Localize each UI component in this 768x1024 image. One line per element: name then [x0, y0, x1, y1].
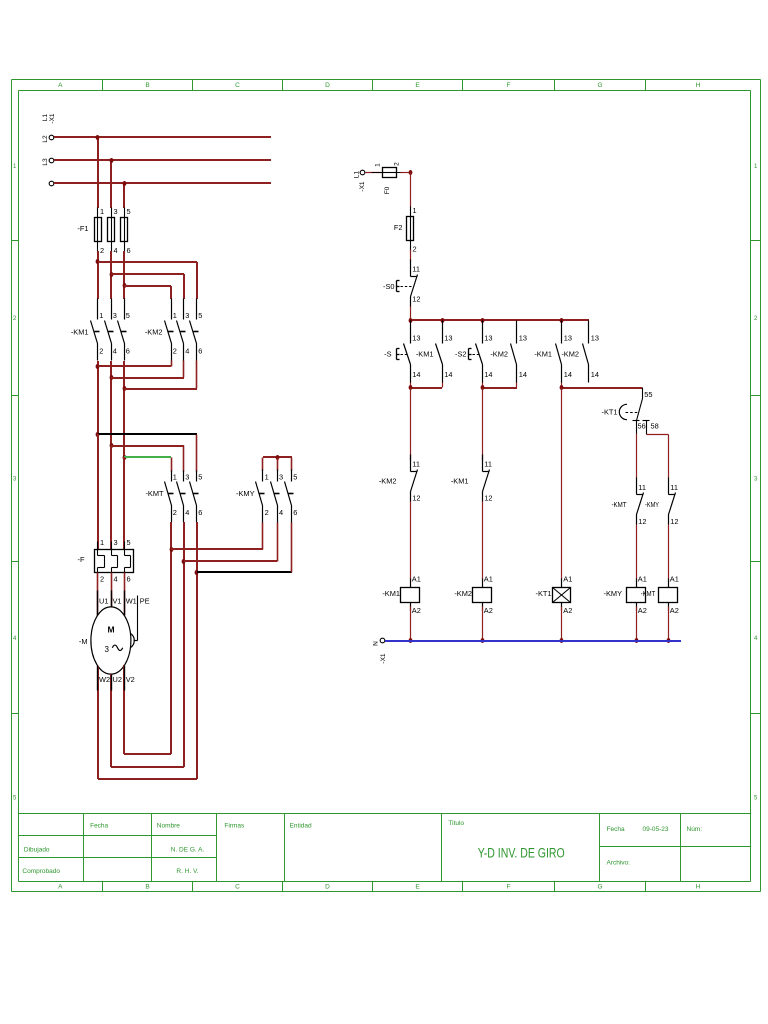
- svg-text:3: 3: [105, 645, 110, 654]
- svg-text:11: 11: [638, 483, 646, 492]
- svg-text:A2: A2: [412, 606, 421, 615]
- svg-text:-X1: -X1: [49, 113, 56, 124]
- svg-text:E: E: [415, 884, 420, 891]
- svg-text:3: 3: [114, 207, 118, 216]
- svg-text:A2: A2: [484, 606, 493, 615]
- svg-text:13: 13: [591, 334, 599, 343]
- svg-text:W2: W2: [99, 675, 110, 684]
- svg-text:13: 13: [412, 334, 420, 343]
- svg-text:-KM1: -KM1: [416, 350, 434, 359]
- svg-text:1: 1: [100, 538, 104, 547]
- svg-text:A1: A1: [563, 575, 572, 584]
- svg-text:6: 6: [126, 347, 130, 356]
- svg-text:-S0: -S0: [383, 282, 395, 291]
- svg-text:6: 6: [127, 246, 131, 255]
- svg-text:-KM1: -KM1: [71, 327, 89, 336]
- svg-text:-KMY: -KMY: [645, 500, 659, 509]
- svg-text:-KM2: -KM2: [379, 477, 397, 486]
- svg-text:13: 13: [484, 334, 492, 343]
- svg-text:4: 4: [114, 246, 118, 255]
- svg-text:-S2: -S2: [455, 350, 467, 359]
- svg-text:14: 14: [412, 370, 420, 379]
- svg-text:4: 4: [185, 347, 189, 356]
- svg-text:3: 3: [185, 473, 189, 482]
- svg-text:H: H: [696, 82, 701, 89]
- svg-text:-X1: -X1: [359, 181, 366, 192]
- svg-text:A1: A1: [484, 575, 493, 584]
- svg-text:1: 1: [173, 473, 177, 482]
- svg-text:2: 2: [99, 347, 103, 356]
- svg-text:09-05-23: 09-05-23: [643, 826, 669, 833]
- svg-text:B: B: [145, 884, 149, 891]
- svg-text:L1: L1: [42, 114, 49, 122]
- svg-text:1: 1: [413, 206, 417, 215]
- svg-text:5: 5: [127, 538, 131, 547]
- svg-text:14: 14: [519, 370, 527, 379]
- svg-text:2: 2: [100, 246, 104, 255]
- svg-text:11: 11: [670, 483, 678, 492]
- svg-text:A1: A1: [412, 575, 421, 584]
- svg-text:2: 2: [413, 245, 417, 254]
- svg-text:12: 12: [638, 517, 646, 526]
- svg-text:Nombre: Nombre: [157, 823, 181, 830]
- svg-text:R. H. V.: R. H. V.: [176, 868, 198, 875]
- svg-text:A2: A2: [670, 606, 679, 615]
- svg-text:-KM2: -KM2: [145, 327, 163, 336]
- svg-text:-KM2: -KM2: [561, 350, 579, 359]
- svg-text:-KMT: -KMT: [612, 500, 627, 509]
- svg-text:4: 4: [114, 575, 118, 584]
- svg-text:1: 1: [375, 163, 382, 167]
- svg-text:12: 12: [670, 517, 678, 526]
- svg-text:Comprobado: Comprobado: [22, 868, 60, 875]
- svg-text:A1: A1: [638, 575, 647, 584]
- svg-text:G: G: [597, 884, 602, 891]
- svg-text:Titulo: Titulo: [448, 820, 464, 827]
- svg-text:-F1: -F1: [77, 224, 88, 233]
- svg-text:3: 3: [185, 311, 189, 320]
- svg-text:L2: L2: [42, 135, 49, 143]
- svg-text:H: H: [696, 884, 701, 891]
- svg-text:6: 6: [127, 575, 131, 584]
- svg-text:-KT1: -KT1: [601, 408, 617, 417]
- svg-text:Archivo:: Archivo:: [607, 860, 631, 867]
- svg-text:U2: U2: [113, 675, 122, 684]
- svg-text:M: M: [107, 625, 114, 635]
- svg-text:PE: PE: [140, 597, 150, 606]
- svg-text:-KM1: -KM1: [382, 589, 400, 598]
- svg-text:Firmas: Firmas: [224, 823, 245, 830]
- svg-text:14: 14: [484, 370, 492, 379]
- svg-text:12: 12: [412, 494, 420, 503]
- svg-text:3: 3: [114, 538, 118, 547]
- svg-text:11: 11: [412, 265, 420, 274]
- svg-text:-KMT: -KMT: [145, 489, 164, 498]
- svg-text:5: 5: [126, 311, 130, 320]
- svg-text:V2: V2: [126, 675, 135, 684]
- svg-text:Núm:: Núm:: [687, 826, 703, 833]
- svg-text:Fecha: Fecha: [607, 826, 625, 833]
- svg-text:-KM1: -KM1: [534, 350, 552, 359]
- svg-text:2: 2: [173, 508, 177, 517]
- svg-text:-KT1: -KT1: [535, 589, 551, 598]
- svg-text:-KMY: -KMY: [604, 589, 623, 598]
- svg-text:5: 5: [198, 473, 202, 482]
- svg-text:14: 14: [591, 370, 599, 379]
- svg-text:1: 1: [265, 473, 269, 482]
- svg-text:-M: -M: [79, 637, 88, 646]
- svg-text:D: D: [325, 82, 330, 89]
- svg-text:1: 1: [100, 207, 104, 216]
- svg-text:11: 11: [484, 460, 492, 469]
- svg-text:N: N: [373, 641, 380, 646]
- svg-text:11: 11: [412, 460, 420, 469]
- svg-text:F: F: [507, 884, 511, 891]
- svg-text:V1: V1: [113, 597, 122, 606]
- svg-text:1: 1: [99, 311, 103, 320]
- svg-text:L3: L3: [42, 158, 49, 166]
- svg-text:1: 1: [173, 311, 177, 320]
- svg-text:5: 5: [293, 473, 297, 482]
- svg-text:2: 2: [265, 508, 269, 517]
- svg-text:C: C: [235, 884, 240, 891]
- svg-text:U1: U1: [99, 597, 108, 606]
- svg-text:A2: A2: [563, 606, 572, 615]
- svg-text:Entidad: Entidad: [290, 823, 312, 830]
- svg-text:A2: A2: [638, 606, 647, 615]
- svg-text:14: 14: [564, 370, 572, 379]
- svg-text:-KMT: -KMT: [641, 589, 656, 598]
- svg-text:F2: F2: [394, 223, 403, 232]
- svg-text:F: F: [507, 82, 511, 89]
- svg-text:G: G: [597, 82, 602, 89]
- svg-text:13: 13: [444, 334, 452, 343]
- svg-text:5: 5: [127, 207, 131, 216]
- svg-text:3: 3: [279, 473, 283, 482]
- svg-text:L1: L1: [354, 171, 361, 179]
- svg-text:B: B: [145, 82, 149, 89]
- svg-text:55: 55: [644, 390, 652, 399]
- svg-text:13: 13: [519, 334, 527, 343]
- svg-text:D: D: [325, 884, 330, 891]
- svg-text:Y-D INV. DE GIRO: Y-D INV. DE GIRO: [478, 846, 565, 862]
- svg-text:5: 5: [198, 311, 202, 320]
- svg-text:-S: -S: [384, 350, 391, 359]
- svg-text:A: A: [58, 884, 63, 891]
- svg-text:13: 13: [564, 334, 572, 343]
- svg-text:A: A: [58, 82, 63, 89]
- svg-text:6: 6: [293, 508, 297, 517]
- svg-text:-X1: -X1: [380, 653, 387, 664]
- svg-text:58: 58: [651, 421, 659, 430]
- svg-text:2: 2: [100, 575, 104, 584]
- svg-text:12: 12: [412, 295, 420, 304]
- svg-text:F0: F0: [384, 186, 391, 194]
- svg-text:-KM1: -KM1: [451, 477, 469, 486]
- svg-text:3: 3: [113, 311, 117, 320]
- svg-text:4: 4: [113, 347, 117, 356]
- svg-text:2: 2: [393, 162, 400, 166]
- svg-text:4: 4: [185, 508, 189, 517]
- svg-text:A1: A1: [670, 575, 679, 584]
- svg-text:Fecha: Fecha: [90, 823, 108, 830]
- svg-text:Dibujado: Dibujado: [24, 847, 50, 854]
- svg-text:14: 14: [444, 370, 452, 379]
- svg-text:6: 6: [198, 347, 202, 356]
- svg-text:-KM2: -KM2: [454, 589, 472, 598]
- svg-text:4: 4: [279, 508, 283, 517]
- svg-text:12: 12: [484, 494, 492, 503]
- svg-text:2: 2: [173, 347, 177, 356]
- svg-text:-F: -F: [78, 555, 85, 564]
- svg-text:E: E: [415, 82, 420, 89]
- svg-text:6: 6: [198, 508, 202, 517]
- svg-text:-KMY: -KMY: [236, 489, 255, 498]
- svg-text:-KM2: -KM2: [490, 350, 508, 359]
- svg-text:56: 56: [638, 421, 646, 430]
- svg-text:C: C: [235, 82, 240, 89]
- svg-text:N. DE G. A.: N. DE G. A.: [171, 847, 205, 854]
- svg-text:W1: W1: [126, 597, 137, 606]
